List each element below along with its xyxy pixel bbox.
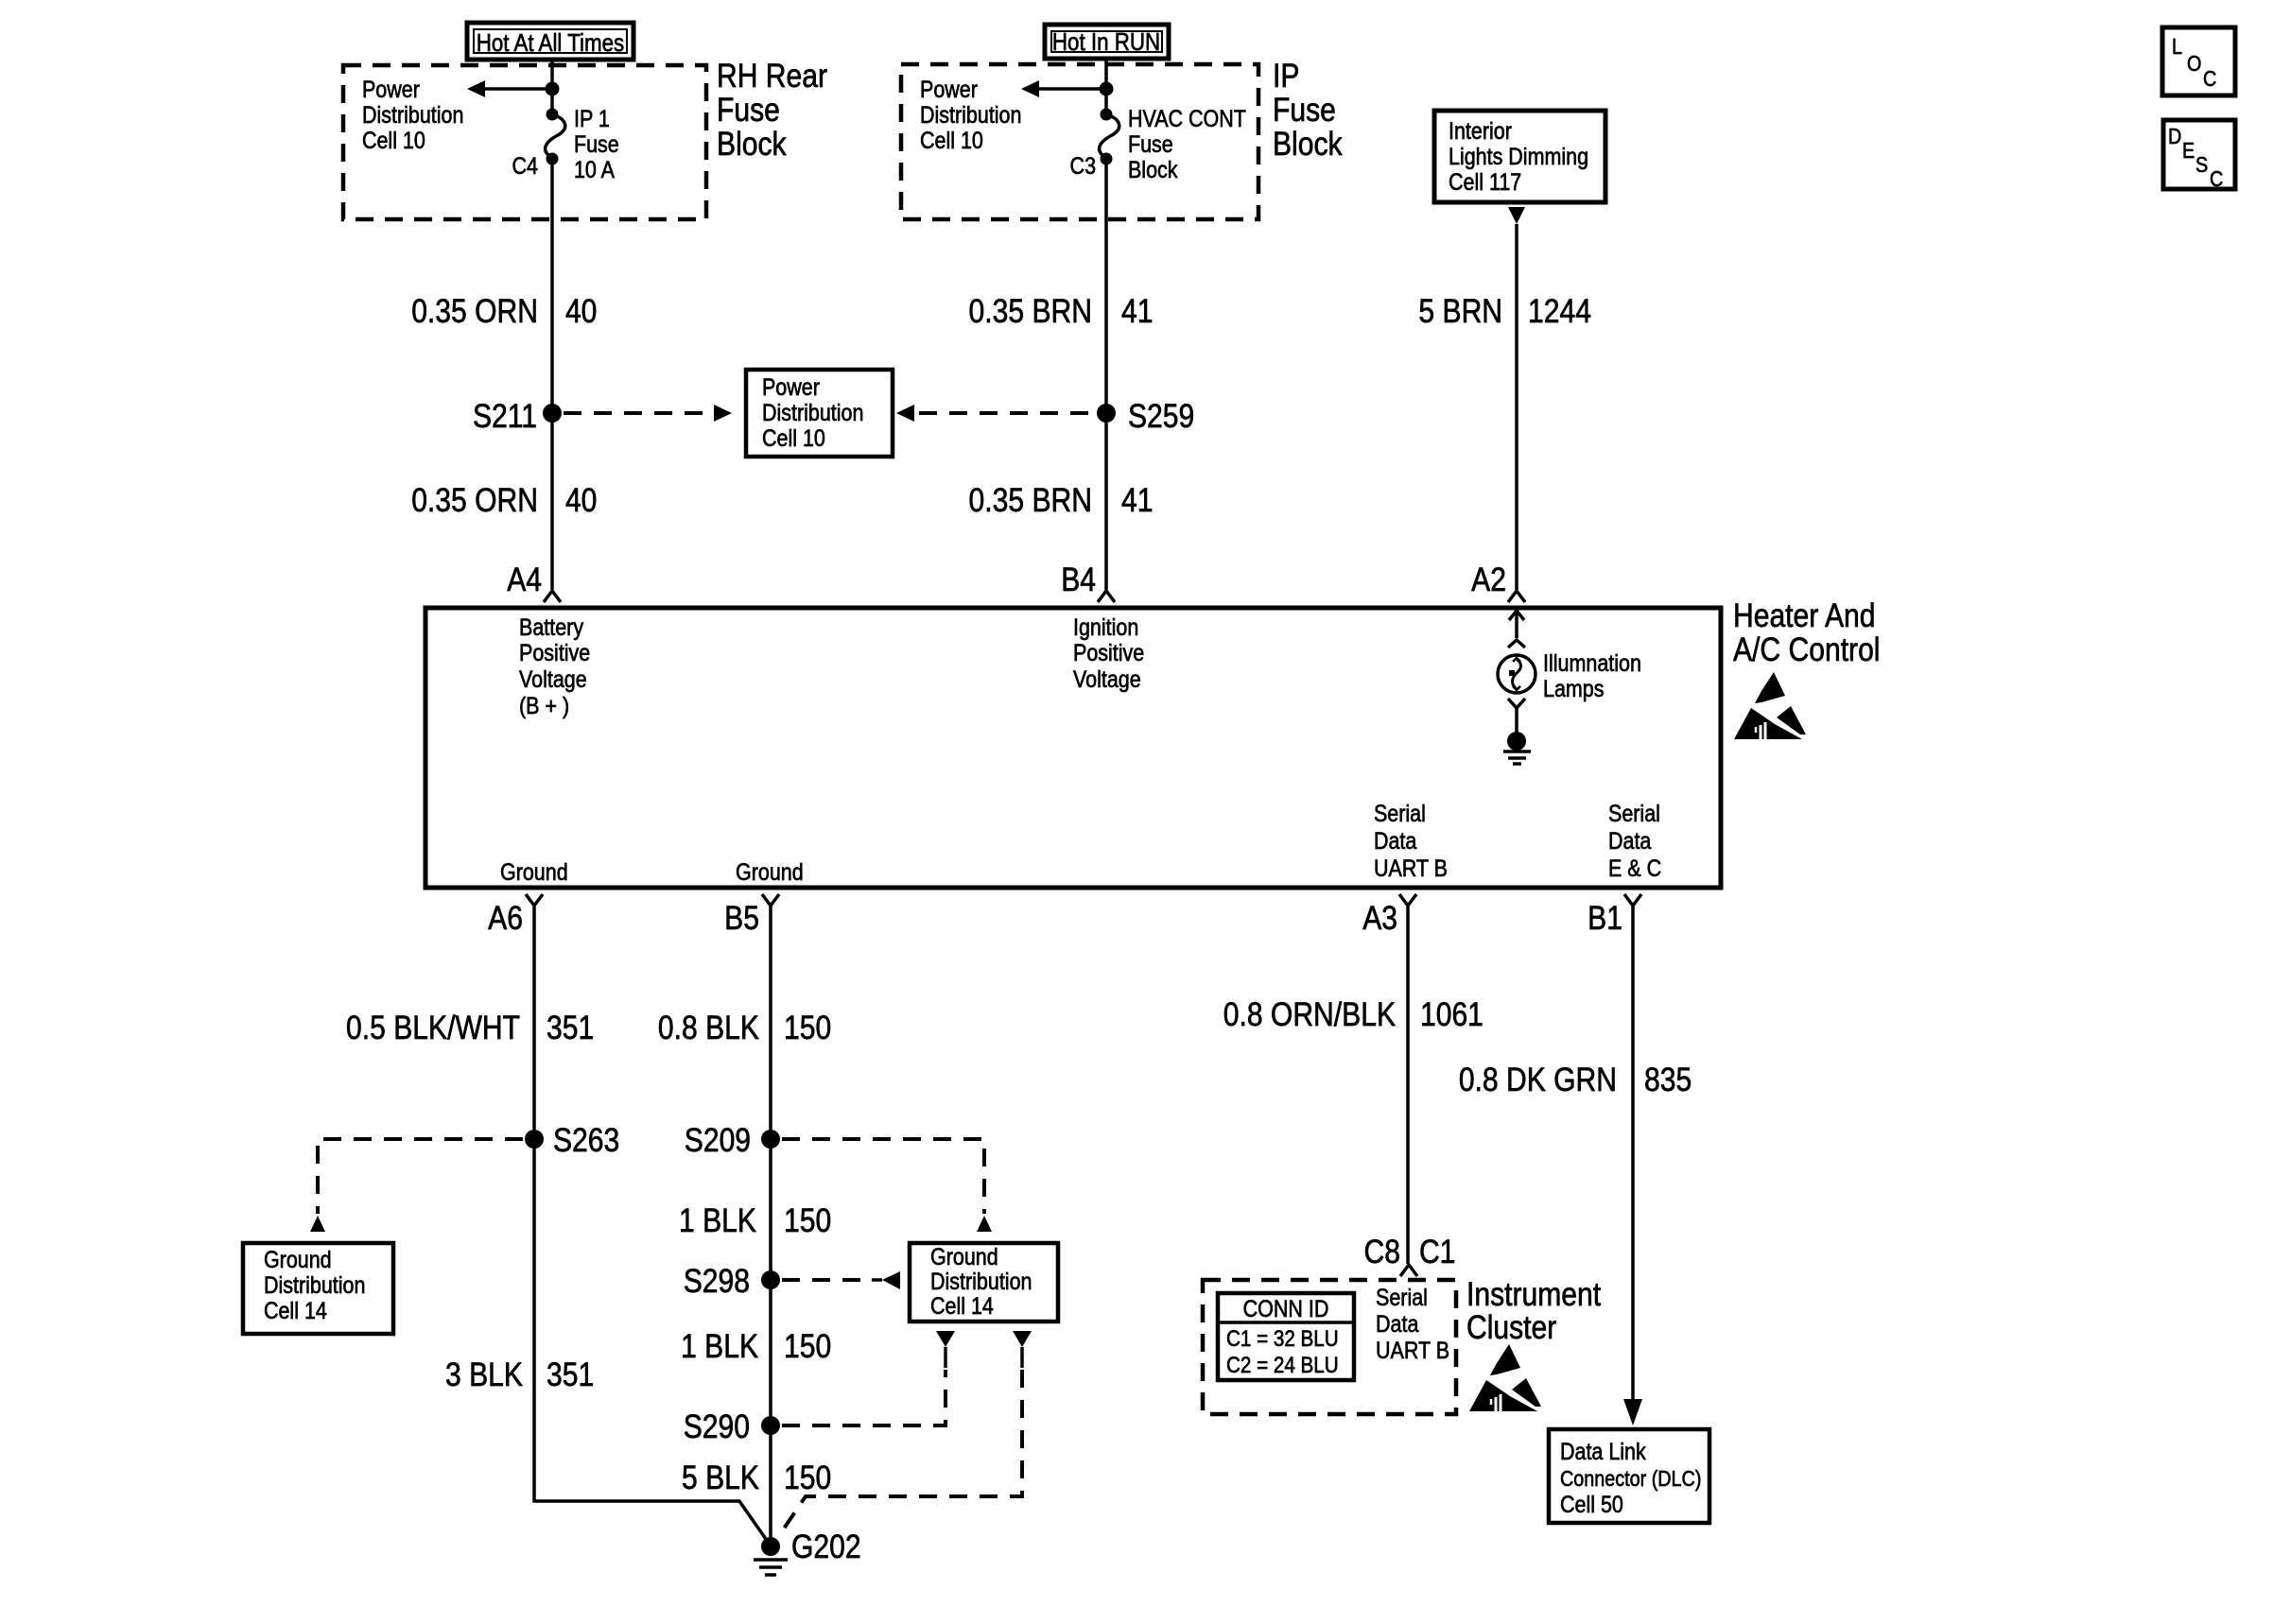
label box: Hot At All Times — [467, 23, 633, 60]
svg-text:S298: S298 — [684, 1262, 750, 1300]
svg-text:CONN ID: CONN ID — [1243, 1295, 1329, 1322]
text: Power Distribution Cell 10 (left fuse block) — [362, 76, 463, 153]
label: 0.35 ORN 40 (upper) — [411, 292, 597, 330]
connector fork A3 — [1399, 894, 1416, 906]
svg-text:Illumnation: Illumnation — [1543, 649, 1641, 676]
label: 0.35 BRN 41 (lower) — [969, 481, 1154, 519]
text: Serial Data E & C (inside box) — [1608, 800, 1661, 881]
svg-text:Distribution: Distribution — [362, 101, 463, 128]
pin B5 — [724, 899, 759, 937]
label: 1 BLK 150 (lower) — [681, 1327, 831, 1365]
dashed wire Ground Distribution to G202 — [778, 1370, 1022, 1537]
wire: serial data UART B (A3) — [1406, 906, 1410, 1264]
svg-text:HVAC CONT: HVAC CONT — [1128, 105, 1246, 131]
splice S259 — [1097, 397, 1194, 435]
wire: 5 BRN 1244 — [1515, 224, 1518, 590]
svg-text:0.8 BLK: 0.8 BLK — [658, 1009, 759, 1046]
label: 0.35 BRN 41 (upper) — [969, 292, 1154, 330]
dashed wire S298 to Ground Distribution — [782, 1271, 900, 1289]
connector fork B5 — [762, 894, 779, 906]
svg-text:Hot At All Times: Hot At All Times — [477, 29, 624, 57]
svg-text:Fuse: Fuse — [1128, 130, 1173, 157]
dashed wire S209 to Ground Distribution — [782, 1139, 992, 1232]
connector fork B4 — [1098, 591, 1115, 602]
svg-text:3 BLK: 3 BLK — [445, 1356, 523, 1393]
svg-text:Serial: Serial — [1376, 1284, 1428, 1310]
ground G202 — [754, 1528, 861, 1575]
svg-text:5 BLK: 5 BLK — [682, 1459, 759, 1496]
svg-text:S290: S290 — [684, 1408, 750, 1445]
svg-text:0.8 DK GRN: 0.8 DK GRN — [1459, 1061, 1617, 1098]
svg-text:41: 41 — [1121, 481, 1153, 519]
pin B1 — [1588, 899, 1622, 937]
box: Data Link Connector (DLC) Cell 50 — [1549, 1429, 1709, 1523]
svg-text:Power: Power — [362, 76, 420, 102]
svg-text:C2 = 24 BLU: C2 = 24 BLU — [1226, 1353, 1339, 1378]
label: 0.8 BLK 150 — [658, 1009, 831, 1046]
svg-text:Power: Power — [920, 76, 978, 102]
dashed wire S290 to Ground Distribution — [782, 1370, 946, 1425]
svg-text:B1: B1 — [1588, 899, 1622, 937]
dashed wire S259 to Power Distribution — [896, 405, 1095, 422]
text: Ground (B5) — [736, 858, 804, 885]
label: 1 BLK 150 (upper) — [679, 1201, 831, 1239]
svg-text:150: 150 — [784, 1327, 831, 1365]
fuse HVAC CONT (C3) — [1100, 109, 1119, 165]
box: CONN ID — [1218, 1293, 1354, 1380]
svg-text:Cell 117: Cell 117 — [1449, 168, 1521, 195]
junction on ignition feed — [1100, 82, 1114, 96]
svg-text:C3: C3 — [1070, 152, 1096, 179]
svg-text:Instrument: Instrument — [1466, 1275, 1601, 1313]
svg-text:0.35 BRN: 0.35 BRN — [969, 481, 1092, 519]
label box: Hot In RUN — [1045, 25, 1169, 59]
junction on battery feed — [546, 82, 560, 96]
svg-text:E & C: E & C — [1608, 855, 1661, 881]
svg-text:40: 40 — [565, 292, 597, 330]
svg-text:Connector (DLC): Connector (DLC) — [1560, 1467, 1701, 1492]
svg-text:Data Link: Data Link — [1560, 1438, 1646, 1464]
svg-text:Data: Data — [1608, 827, 1651, 854]
DESC box — [2163, 120, 2235, 191]
svg-text:D: D — [2168, 125, 2181, 149]
ESD symbol (heater) — [1734, 672, 1806, 739]
svg-text:Ground: Ground — [930, 1243, 998, 1270]
svg-text:IP 1: IP 1 — [574, 105, 610, 131]
svg-text:1 BLK: 1 BLK — [681, 1327, 758, 1365]
svg-text:Power: Power — [762, 373, 820, 400]
svg-text:Serial: Serial — [1608, 800, 1660, 826]
box: Interior Lights Dimming Cell 117 — [1434, 111, 1605, 202]
text: IP Fuse Block — [1273, 57, 1343, 163]
connector fork B1 — [1624, 894, 1641, 906]
svg-text:0.35 ORN: 0.35 ORN — [411, 292, 538, 330]
svg-text:A3: A3 — [1362, 899, 1397, 937]
label: 5 BLK 150 — [682, 1459, 831, 1496]
svg-text:Hot In RUN: Hot In RUN — [1052, 28, 1160, 56]
svg-text:0.35 ORN: 0.35 ORN — [411, 481, 538, 519]
arrow from Ground Distribution (bottom right) — [1013, 1331, 1032, 1368]
svg-text:Cell 10: Cell 10 — [362, 127, 425, 153]
svg-text:Block: Block — [1273, 125, 1343, 163]
arrow from Interior Lights Dimming — [1508, 207, 1525, 224]
splice S263 — [525, 1121, 619, 1159]
svg-text:Distribution: Distribution — [264, 1271, 365, 1298]
IP Fuse Block dashed box — [901, 64, 1258, 219]
svg-text:Positive: Positive — [519, 639, 590, 665]
splice S211 — [473, 397, 562, 435]
svg-text:0.8 ORN/BLK: 0.8 ORN/BLK — [1223, 995, 1396, 1033]
svg-text:1244: 1244 — [1528, 292, 1591, 330]
label: 5 BRN 1244 — [1418, 292, 1591, 330]
pin A4 — [507, 561, 542, 598]
dashed wire S263 to Ground Distribution — [310, 1139, 523, 1232]
svg-text:G202: G202 — [791, 1528, 861, 1565]
svg-text:1 BLK: 1 BLK — [679, 1201, 756, 1239]
arrow from Ground Distribution (bottom left) — [936, 1331, 955, 1368]
text: Serial Data UART B (cluster) — [1376, 1284, 1449, 1363]
svg-text:150: 150 — [784, 1201, 831, 1239]
pin C3 — [1070, 152, 1096, 179]
svg-text:Block: Block — [717, 125, 787, 163]
text: Ground (A6) — [500, 858, 568, 885]
internal ground symbol — [1503, 752, 1531, 764]
label: 0.35 ORN 40 (lower) — [411, 481, 597, 519]
svg-text:150: 150 — [784, 1459, 831, 1496]
svg-text:L: L — [2172, 35, 2182, 60]
svg-text:Lamps: Lamps — [1543, 675, 1604, 701]
pin A6 — [488, 899, 523, 937]
svg-text:Ground: Ground — [500, 858, 568, 885]
ESD symbol (cluster) — [1469, 1344, 1541, 1411]
svg-text:S: S — [2195, 153, 2208, 178]
svg-text:A/C Control: A/C Control — [1733, 631, 1880, 668]
svg-text:S209: S209 — [685, 1121, 751, 1159]
svg-text:41: 41 — [1121, 292, 1153, 330]
svg-text:B5: B5 — [724, 899, 759, 937]
wire: ignition feed upper segment — [1104, 59, 1108, 110]
svg-text:40: 40 — [565, 481, 597, 519]
text: Instrument Cluster — [1466, 1275, 1601, 1346]
box: Ground Distribution Cell 14 (left) — [243, 1243, 393, 1334]
connector fork A4 — [544, 591, 561, 602]
svg-text:IP: IP — [1273, 57, 1299, 95]
svg-text:351: 351 — [547, 1356, 594, 1393]
pin A3 — [1362, 899, 1397, 937]
svg-text:Fuse: Fuse — [717, 91, 780, 129]
svg-text:RH Rear: RH Rear — [717, 57, 827, 95]
svg-text:Distribution: Distribution — [920, 101, 1021, 128]
fuse IP 1 10A (C4) — [546, 109, 565, 165]
arrow to Power Distribution (IP) — [1021, 80, 1106, 97]
svg-text:835: 835 — [1644, 1061, 1692, 1098]
svg-text:S263: S263 — [553, 1121, 619, 1159]
wire: ground B5 — [769, 906, 772, 1546]
pin A2 — [1471, 561, 1506, 598]
svg-text:B4: B4 — [1061, 561, 1096, 598]
text: Serial Data UART B (inside box) — [1374, 800, 1448, 881]
svg-text:(B + ): (B + ) — [519, 692, 569, 718]
svg-text:C: C — [2203, 67, 2216, 92]
internal arrows at A2 — [1508, 611, 1525, 648]
svg-text:Data: Data — [1374, 827, 1416, 854]
svg-text:Voltage: Voltage — [1073, 665, 1141, 692]
svg-text:Positive: Positive — [1073, 639, 1144, 665]
svg-text:Fuse: Fuse — [574, 130, 619, 157]
text: HVAC CONT Fuse Block — [1128, 105, 1246, 182]
text: IP 1 Fuse 10 A — [574, 105, 619, 182]
svg-text:Fuse: Fuse — [1273, 91, 1336, 129]
svg-text:C8: C8 — [1364, 1233, 1400, 1270]
svg-text:C4: C4 — [512, 152, 539, 179]
svg-text:Interior: Interior — [1449, 117, 1512, 144]
box: Heater And A/C Control — [425, 608, 1721, 888]
label: 0.8 ORN/BLK 1061 — [1223, 995, 1484, 1033]
svg-text:UART B: UART B — [1374, 855, 1448, 881]
svg-text:Voltage: Voltage — [519, 665, 587, 692]
svg-text:E: E — [2182, 139, 2195, 164]
text: Power Distribution Cell 10 (IP fuse block) — [920, 76, 1021, 153]
svg-text:A4: A4 — [507, 561, 542, 598]
svg-text:Cell 14: Cell 14 — [264, 1297, 327, 1323]
box: Instrument Cluster (dashed) — [1203, 1280, 1456, 1414]
RH Rear Fuse Block dashed box — [343, 65, 706, 219]
svg-text:0.5 BLK/WHT: 0.5 BLK/WHT — [346, 1009, 520, 1046]
box: Power Distribution Cell 10 — [746, 370, 893, 457]
text: Heater And A/C Control — [1733, 596, 1880, 668]
wire: ground A6 — [534, 906, 768, 1542]
arrow into Data Link Connector — [1623, 1399, 1642, 1425]
svg-text:Ground: Ground — [264, 1246, 332, 1272]
svg-text:Distribution: Distribution — [930, 1268, 1032, 1294]
svg-text:Ignition: Ignition — [1073, 613, 1138, 640]
svg-text:Ground: Ground — [736, 858, 804, 885]
svg-text:A2: A2 — [1471, 561, 1506, 598]
wire: battery feed upper segment — [550, 60, 554, 110]
svg-text:UART B: UART B — [1376, 1337, 1449, 1363]
svg-text:Cell 50: Cell 50 — [1560, 1491, 1623, 1517]
label: 0.5 BLK/WHT 351 — [346, 1009, 594, 1046]
connector fork A2 — [1508, 591, 1525, 602]
splice S209 — [685, 1121, 780, 1159]
splice S290 — [684, 1408, 780, 1445]
dashed wire S211 to Power Distribution — [564, 405, 732, 422]
svg-text:Block: Block — [1128, 156, 1178, 182]
wire: 0.35 ORN 40 lower segment — [550, 164, 554, 590]
svg-text:O: O — [2187, 52, 2201, 77]
label: 3 BLK 351 — [445, 1356, 594, 1393]
svg-text:S259: S259 — [1128, 397, 1194, 435]
wire: serial data E & C (B1) — [1631, 906, 1635, 1401]
svg-text:150: 150 — [784, 1009, 831, 1046]
label: 0.8 DK GRN 835 — [1459, 1061, 1692, 1098]
splice S298 — [684, 1262, 780, 1300]
text: Ignition Positive Voltage — [1073, 613, 1144, 692]
svg-text:10 A: 10 A — [574, 156, 615, 182]
box: Ground Distribution Cell 14 (right) — [910, 1243, 1058, 1322]
svg-text:Battery: Battery — [519, 613, 583, 640]
svg-text:Cluster: Cluster — [1466, 1308, 1556, 1346]
pins C8 C1 — [1364, 1233, 1456, 1270]
svg-text:351: 351 — [547, 1009, 594, 1046]
svg-text:1061: 1061 — [1420, 995, 1484, 1033]
illumination lamp — [1498, 655, 1536, 693]
internal ground node — [1507, 732, 1526, 751]
text: RH Rear Fuse Block — [717, 57, 827, 163]
svg-text:Cell 10: Cell 10 — [920, 127, 983, 153]
text: Illumnation Lamps — [1543, 649, 1641, 701]
text: Battery Positive Voltage (B+) — [519, 613, 590, 718]
svg-text:S211: S211 — [473, 397, 537, 435]
svg-text:Distribution: Distribution — [762, 399, 863, 425]
svg-text:Heater And: Heater And — [1733, 596, 1876, 634]
svg-text:Data: Data — [1376, 1310, 1418, 1337]
connector fork A6 — [526, 894, 543, 906]
svg-text:A6: A6 — [488, 899, 523, 937]
arrow to Power Distribution (left) — [467, 80, 552, 97]
svg-text:5 BRN: 5 BRN — [1418, 292, 1502, 330]
LOC box — [2162, 27, 2235, 95]
svg-text:C: C — [2210, 167, 2223, 192]
pin B4 — [1061, 561, 1096, 598]
svg-text:C1: C1 — [1419, 1233, 1455, 1270]
connector fork C8/C1 — [1400, 1265, 1417, 1276]
svg-text:C1 = 32 BLU: C1 = 32 BLU — [1226, 1326, 1339, 1352]
wire: 0.35 BRN 41 lower segment — [1104, 164, 1108, 590]
svg-text:Lights Dimming: Lights Dimming — [1449, 143, 1588, 169]
svg-text:Serial: Serial — [1374, 800, 1426, 826]
svg-text:Cell 10: Cell 10 — [762, 424, 825, 451]
pin C4 — [512, 152, 539, 179]
svg-text:Cell 14: Cell 14 — [930, 1292, 994, 1319]
lamp lower fork — [1508, 699, 1525, 733]
svg-text:0.35 BRN: 0.35 BRN — [969, 292, 1092, 330]
